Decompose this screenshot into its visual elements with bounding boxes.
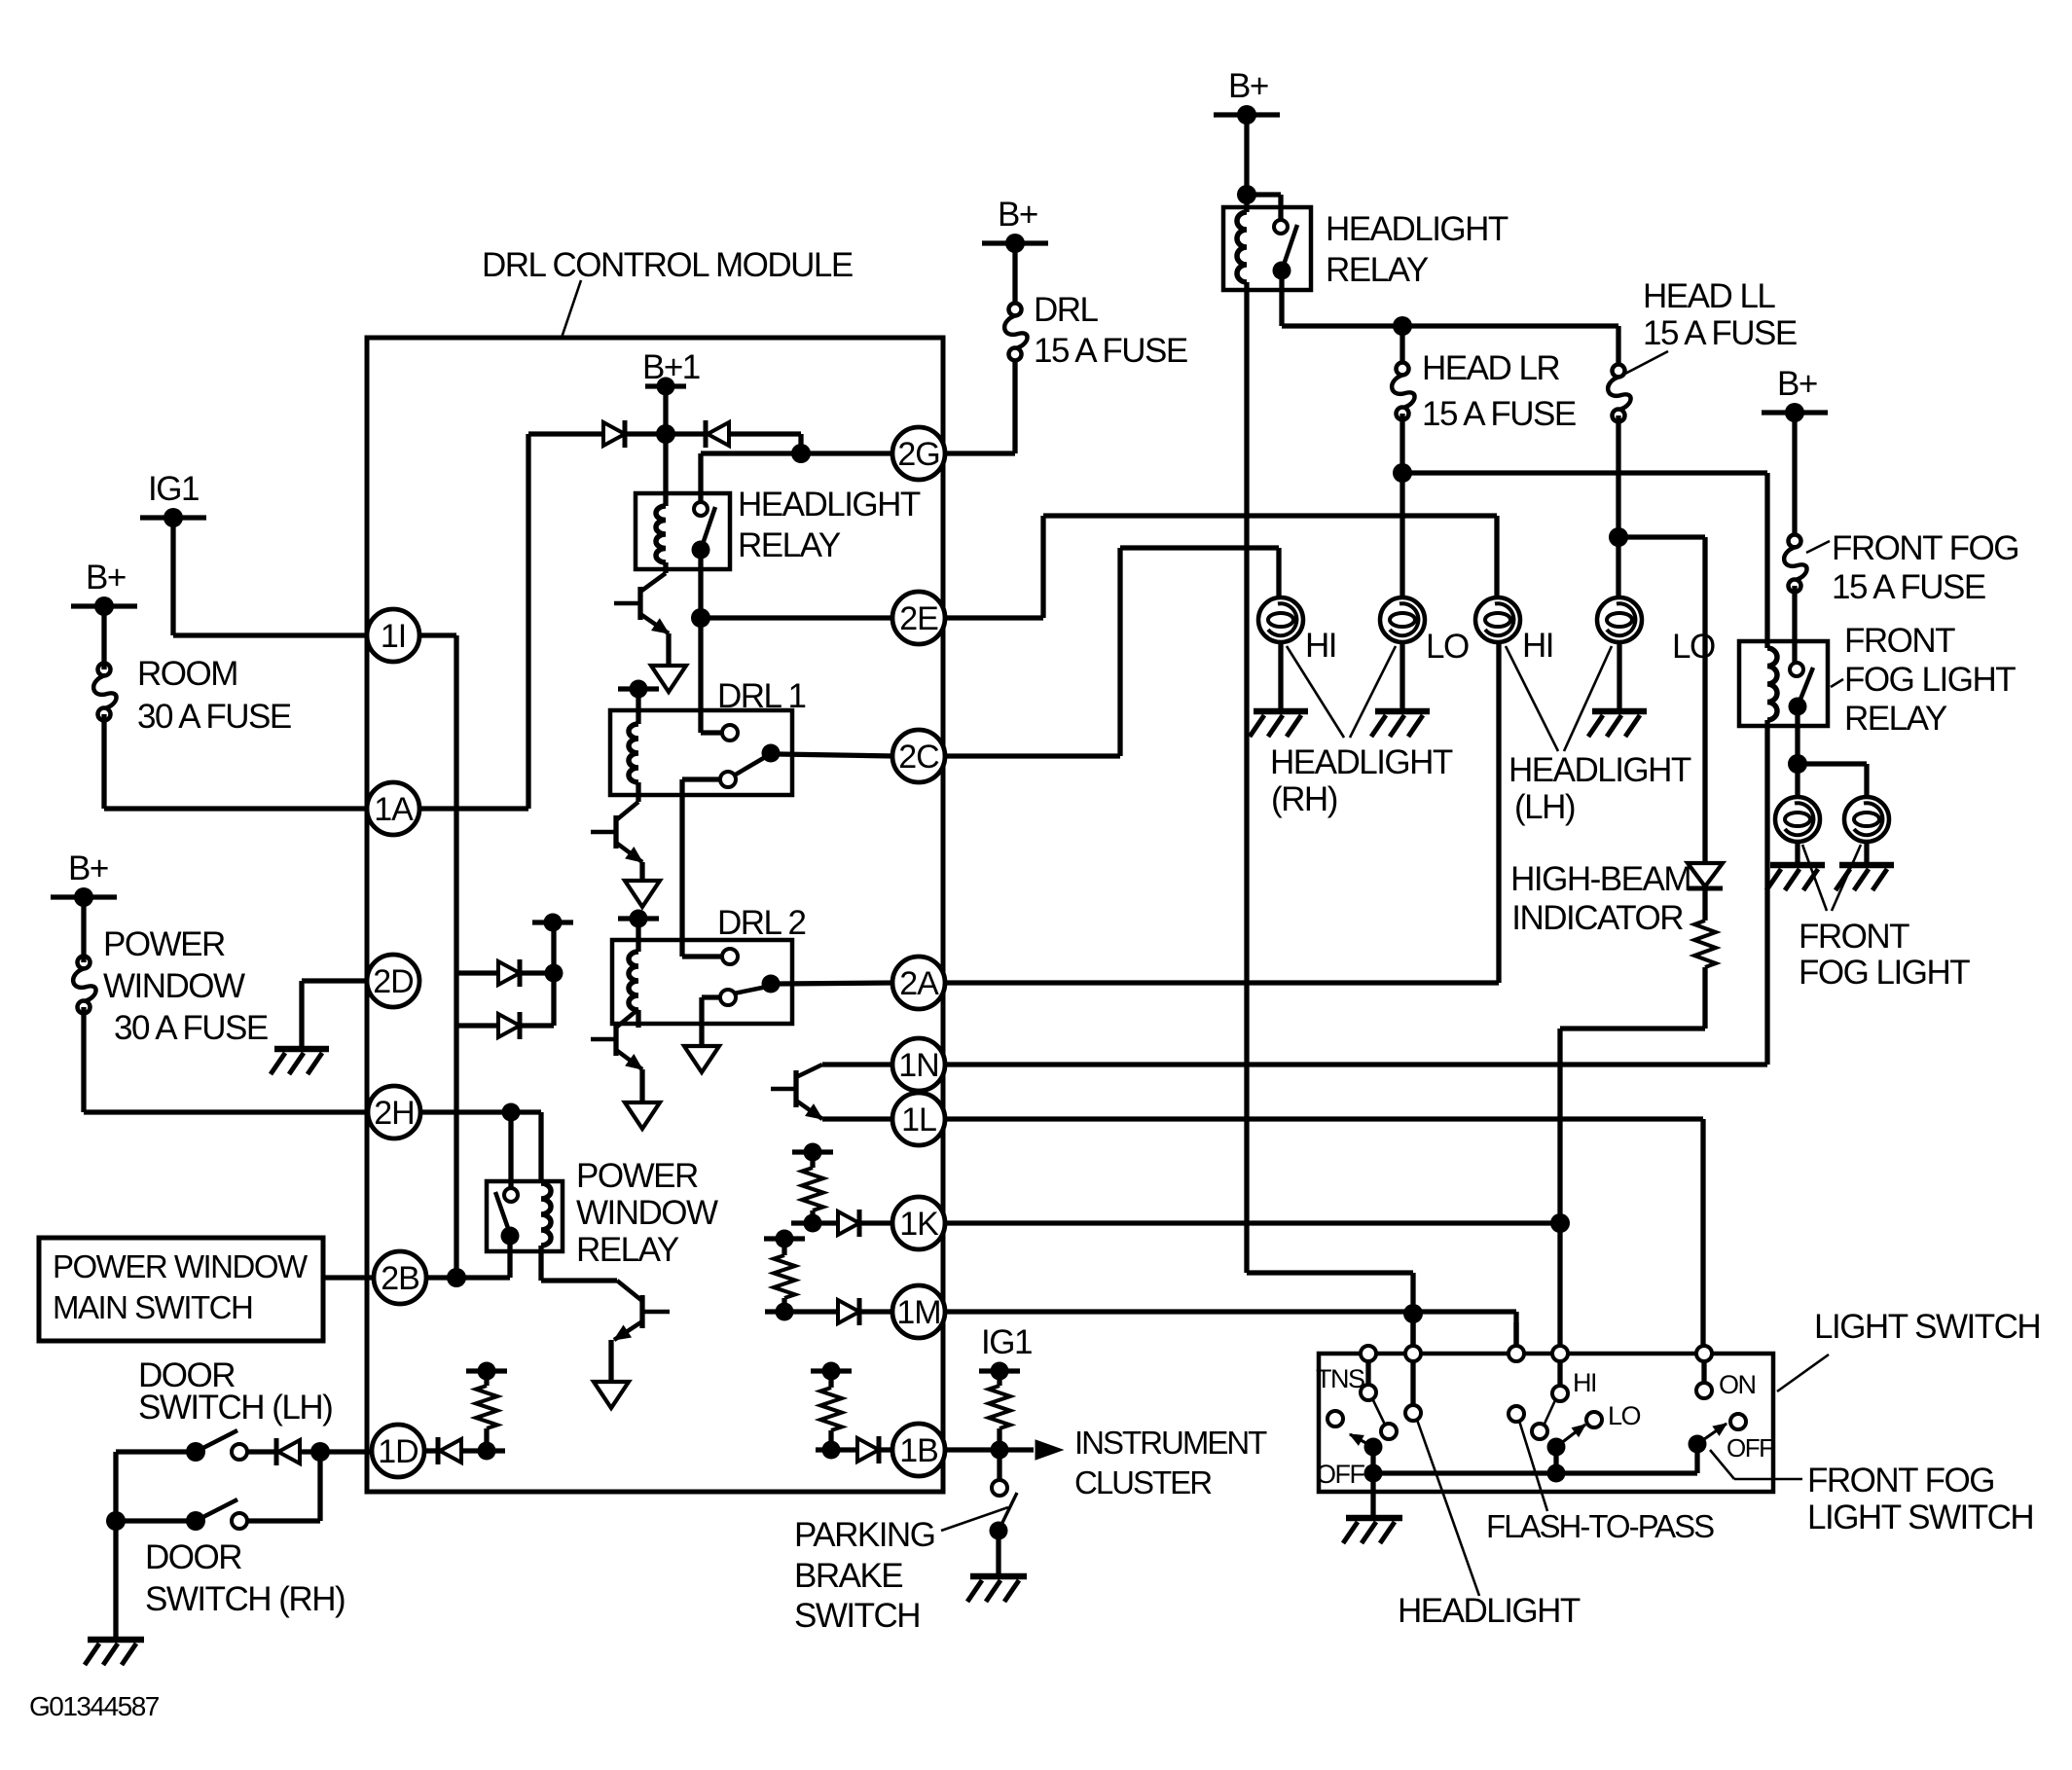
DRL control module box [367, 338, 943, 1492]
svg-text:LIGHT SWITCH: LIGHT SWITCH [1807, 1499, 2033, 1536]
headlight bulb HI (LH) [1475, 597, 1553, 665]
node 2E junction [691, 608, 710, 628]
resistor high-beam indicator [1694, 888, 1716, 1029]
pin 2A [892, 957, 945, 1009]
label HI (dimmer) [1573, 1368, 1596, 1397]
ground (LO LH) [1588, 711, 1647, 737]
wire LO RH feed [1400, 473, 1404, 597]
label DRL CONTROL MODULE [482, 246, 853, 338]
node B+1 diode junction [656, 424, 675, 444]
fuse POWER WINDOW 30 A [73, 897, 268, 1112]
figure number G01344587 [29, 1691, 160, 1721]
power window relay coil [541, 1183, 617, 1281]
wire 1A to diode column [420, 434, 528, 809]
arrow to instrument cluster [1036, 1440, 1063, 1460]
node 1D junction [478, 1442, 496, 1461]
wire HI link [1545, 1400, 1555, 1424]
wire 2C to HI(RH) bulb [944, 548, 1279, 756]
svg-text:HEADLIGHT: HEADLIGHT [1509, 751, 1691, 789]
power symbol IG1 (left) [140, 470, 206, 527]
svg-text:15 A FUSE: 15 A FUSE [1034, 332, 1187, 370]
power symbol B+ (headlight relay) [1214, 67, 1280, 125]
wire 2H internal [419, 1112, 541, 1183]
label DOOR SWITCH (LH) [138, 1356, 332, 1427]
svg-text:15 A FUSE: 15 A FUSE [1422, 395, 1576, 433]
label TNS [1316, 1364, 1364, 1393]
diode D4 (second row) [456, 1012, 554, 1039]
svg-text:HIGH-BEAM: HIGH-BEAM [1510, 860, 1690, 898]
headlight relay coil (top right) [1237, 195, 1247, 290]
label OFF (left) [1316, 1460, 1364, 1489]
relay DRL 2 label [717, 904, 805, 942]
diode D1 (1A to B+1) [528, 420, 666, 448]
DRL2 moving contact [734, 975, 781, 994]
svg-text:SWITCH (LH): SWITCH (LH) [138, 1389, 332, 1427]
diode door switch LH [247, 1438, 373, 1465]
wire 1L to ON terminal [944, 1119, 1703, 1346]
node fog bulbs junction [1788, 754, 1807, 774]
wire DRL2 to 2A [779, 983, 893, 984]
headlight bulb LO (LH) [1597, 597, 1715, 666]
pin 1K [892, 1197, 945, 1249]
svg-text:(LH): (LH) [1514, 788, 1575, 826]
light switch box [1319, 1354, 1773, 1492]
switch TNS contact [1361, 1361, 1376, 1400]
node HEAD LR fuse tap [1393, 316, 1412, 362]
wire main switch to pin 2B [323, 1275, 375, 1280]
wire Q3 emitter down [639, 1069, 644, 1102]
wire 2E internal [701, 615, 893, 620]
pin 2E [892, 592, 945, 644]
svg-text:HI: HI [1573, 1368, 1596, 1397]
wire to fog bulb 2 [1798, 764, 1867, 798]
node 2H junction [502, 1103, 521, 1122]
ground (parking brake) [967, 1576, 1027, 1602]
svg-text:RELAY: RELAY [576, 1231, 679, 1269]
label INSTRUMENT CLUSTER [1074, 1425, 1267, 1500]
headlight bulb LO (RH) [1380, 597, 1469, 666]
svg-text:1B: 1B [899, 1432, 938, 1469]
wire DRL2 lower contact to triangle [702, 997, 720, 1046]
pin 2G [892, 427, 945, 480]
svg-text:2C: 2C [898, 739, 939, 776]
svg-text:2A: 2A [899, 965, 939, 1002]
node door diode junction [310, 1442, 330, 1521]
switch ON contact [1696, 1361, 1712, 1398]
DRL1 moving contact [734, 744, 781, 777]
pin 1N [892, 1038, 945, 1091]
switch fog OFF contact [1730, 1414, 1746, 1429]
open triangle (Q3 emitter) [625, 1102, 660, 1129]
svg-text:LO: LO [1672, 628, 1715, 666]
headlight relay box (module) [636, 493, 730, 569]
wire to fog bulb 1 [1795, 764, 1799, 798]
leader FRONT FOG LIGHT SWITCH [1710, 1450, 1802, 1479]
svg-text:15 A FUSE: 15 A FUSE [1643, 314, 1797, 352]
wire relay coil control line [1247, 290, 1413, 1346]
power window relay box [487, 1181, 563, 1251]
wire HEAD LL fuse drop [1616, 326, 1620, 364]
svg-text:ROOM: ROOM [137, 655, 237, 693]
svg-text:OFF: OFF [1727, 1433, 1773, 1463]
wire 1N to fog relay coil [944, 726, 1767, 1065]
svg-text:B+1: B+1 [642, 348, 700, 386]
svg-text:1K: 1K [899, 1206, 939, 1243]
svg-text:FRONT FOG: FRONT FOG [1832, 529, 2018, 567]
node 1K junction on HI line [1550, 1213, 1570, 1233]
svg-text:INDICATOR: INDICATOR [1511, 899, 1683, 937]
wire relay to DRL1 contact [701, 618, 722, 733]
ground (fog bulb 2) [1836, 865, 1894, 890]
headlight relay contact (module) [692, 453, 716, 618]
wire dimmer pivot to bus [1547, 1447, 1566, 1483]
switch mid contact (dimmer) [1532, 1424, 1547, 1439]
wire HEAD LR to fog relay coil [1402, 473, 1767, 648]
label FRONT FOG LIGHT RELAY [1831, 622, 2016, 738]
svg-text:LO: LO [1608, 1401, 1641, 1430]
headlight relay contact (top right) [1247, 195, 1297, 326]
fuse HEAD LR 15 A [1392, 349, 1576, 433]
wire 1M external [944, 1304, 1516, 1346]
switch HEAD contact [1405, 1361, 1421, 1421]
svg-text:POWER: POWER [103, 925, 225, 963]
wire fog bulb 1 ground [1795, 842, 1799, 863]
ground (door switches) [85, 1640, 144, 1665]
label HIGH-BEAM INDICATOR [1510, 860, 1690, 937]
fuse DRL 15 A [1004, 251, 1187, 370]
diode D2 (2G to B+1) [666, 420, 811, 463]
pin 1A [367, 782, 419, 835]
svg-text:(RH): (RH) [1271, 780, 1337, 818]
switch LO contact [1586, 1412, 1602, 1427]
parking brake switch [990, 1450, 1018, 1540]
switch mid contact (left bank) [1381, 1424, 1397, 1439]
open triangle (Q4 emitter) [594, 1382, 629, 1408]
front fog relay contact [1789, 663, 1814, 764]
DRL2 upper contact [722, 949, 738, 964]
svg-text:B+: B+ [86, 559, 126, 596]
DRL1 box [610, 710, 792, 795]
pin 2B [374, 1251, 426, 1304]
svg-text:IG1: IG1 [148, 470, 199, 508]
wire indicator to HI terminal [1560, 1029, 1705, 1354]
svg-text:OFF: OFF [1316, 1460, 1364, 1489]
open triangle (Q2 emitter) [625, 881, 660, 907]
svg-text:1L: 1L [901, 1102, 936, 1138]
diode D6 (1K) [791, 1210, 893, 1237]
label LO (dimmer) [1608, 1401, 1641, 1430]
label PARKING BRAKE SWITCH [794, 1516, 934, 1635]
label POWER WINDOW RELAY [576, 1157, 718, 1269]
svg-text:INSTRUMENT: INSTRUMENT [1074, 1425, 1267, 1461]
svg-text:FRONT: FRONT [1799, 918, 1909, 956]
relay DRL 1 label [717, 677, 805, 715]
pin 1D [372, 1425, 424, 1477]
power symbol B+ (room fuse) [71, 559, 137, 616]
label DOOR SWITCH (RH) [145, 1538, 345, 1618]
svg-text:B+: B+ [68, 849, 108, 887]
wire HI RH to ground [1278, 642, 1283, 709]
ground (HI RH) [1250, 711, 1308, 737]
power symbol B+ (front fog) [1762, 365, 1828, 422]
terminal flash-to-pass [1509, 1322, 1524, 1361]
box POWER WINDOW MAIN SWITCH [39, 1238, 323, 1341]
power window relay contact [495, 1112, 520, 1278]
svg-text:1N: 1N [898, 1047, 938, 1084]
wire 2B internal [425, 1268, 510, 1287]
svg-text:HI: HI [1522, 627, 1553, 665]
diode high-beam indicator [1688, 863, 1723, 888]
svg-text:HI: HI [1305, 627, 1336, 665]
svg-text:30 A FUSE: 30 A FUSE [114, 1009, 268, 1047]
power symbol B+ (DRL fuse) [982, 196, 1048, 253]
wire IG1 to pin 1I [173, 518, 369, 635]
label HEADLIGHT (LH) [1506, 646, 1691, 826]
svg-text:2E: 2E [899, 600, 938, 637]
pin 1L [892, 1093, 945, 1145]
door switch LH [116, 1430, 247, 1462]
pin 1M [892, 1285, 945, 1338]
svg-text:TNS: TNS [1316, 1364, 1364, 1393]
wire LO LH to ground [1617, 642, 1621, 709]
wire parking brake to ground [996, 1531, 1000, 1574]
diode D7 (1M) [765, 1298, 893, 1325]
diode D5 (1D) [423, 1437, 505, 1464]
transistor Q3 (DRL2 driver) [591, 1009, 642, 1069]
DRL2 lower contact [720, 990, 736, 1005]
label FRONT FOG LIGHT SWITCH [1807, 1462, 2033, 1536]
front fog relay coil [1767, 648, 1777, 726]
svg-text:2H: 2H [374, 1095, 414, 1132]
switch FTP contact [1509, 1406, 1524, 1422]
resistor R3 with stub (1B) [811, 1362, 852, 1451]
wire Q5 collector to 1N [822, 1062, 893, 1066]
svg-text:BRAKE: BRAKE [794, 1557, 902, 1595]
svg-text:RELAY: RELAY [1844, 700, 1947, 738]
svg-text:15 A FUSE: 15 A FUSE [1832, 568, 1985, 606]
fuse ROOM 30 A [93, 606, 291, 809]
resistor R1 with stub (1K) [792, 1143, 833, 1224]
front fog bulb 2 [1844, 797, 1889, 842]
pin 2H [368, 1086, 420, 1138]
svg-text:2G: 2G [897, 436, 939, 473]
headlight bulb HI (RH) [1258, 597, 1336, 665]
ground (LO RH) [1371, 711, 1430, 737]
svg-text:FOG LIGHT: FOG LIGHT [1844, 661, 2016, 699]
wire 2D to ground [302, 981, 369, 1049]
dimmer blade [1547, 1425, 1586, 1457]
wire HEAD LR fuse to junction [1393, 414, 1412, 483]
wire 2G to DRL fuse [944, 362, 1015, 453]
label LIGHT SWITCH [1777, 1308, 2040, 1391]
wire B+1 down [663, 386, 668, 434]
ground (light switch) [1343, 1518, 1402, 1543]
svg-text:PARKING: PARKING [794, 1516, 934, 1554]
wire Q4 emitter down [608, 1340, 613, 1382]
resistor (parking brake pull-up) [989, 1371, 1010, 1450]
wire door switches left drop [113, 1452, 118, 1637]
wire 2G internal [701, 451, 893, 455]
power stub above DRL1 [618, 680, 659, 699]
label HEADLIGHT (switch) [1398, 1592, 1581, 1630]
wire 1I branch vertical [418, 635, 456, 1278]
label OFF (fog) [1727, 1433, 1773, 1463]
front fog light relay box [1739, 641, 1828, 726]
headlight switch blade [1350, 1434, 1383, 1457]
svg-text:B+: B+ [998, 196, 1037, 234]
label FRONT FOG LIGHT [1799, 845, 1970, 992]
power stub above DRL2 [618, 910, 659, 928]
leader to FLASH-TO-PASS [1519, 1421, 1547, 1511]
svg-text:HEADLIGHT: HEADLIGHT [1270, 743, 1453, 781]
bus OFF line [1373, 1470, 1697, 1475]
ground (fog bulb 1) [1766, 865, 1825, 890]
wire 2E to HI(LH) bulb [944, 516, 1497, 618]
svg-text:2B: 2B [381, 1260, 419, 1297]
terminal HI [1552, 1346, 1568, 1361]
diode D3 (row near 2D) [456, 959, 554, 987]
label HEADLIGHT (RH) [1270, 646, 1453, 818]
svg-text:1I: 1I [381, 618, 406, 655]
transistor Q2 (DRL1 driver) [591, 802, 642, 862]
label HEADLIGHT RELAY (top right) [1326, 210, 1509, 289]
svg-text:HEADLIGHT: HEADLIGHT [1398, 1592, 1581, 1630]
label ON (fog) [1719, 1370, 1756, 1399]
power symbol B+1 [642, 348, 700, 396]
pin 2D [367, 955, 419, 1007]
wire DRL1 lower to DRL2 upper [682, 779, 722, 957]
svg-text:LO: LO [1426, 628, 1469, 666]
svg-text:FLASH-TO-PASS: FLASH-TO-PASS [1486, 1508, 1714, 1544]
pin 2C [892, 730, 945, 782]
svg-text:2D: 2D [373, 963, 413, 1000]
svg-text:POWER: POWER [576, 1157, 698, 1195]
svg-text:HEAD LR: HEAD LR [1422, 349, 1559, 387]
transistor Q1 (headlight relay driver) [614, 573, 669, 633]
DRL2 box [612, 940, 792, 1024]
svg-text:B+: B+ [1228, 67, 1268, 105]
terminal ON [1696, 1346, 1712, 1361]
svg-text:DOOR: DOOR [145, 1538, 241, 1576]
power symbol IG1 (parking brake) [979, 1323, 1032, 1381]
svg-text:RELAY: RELAY [1326, 251, 1429, 289]
terminal headlight common [1405, 1322, 1421, 1361]
svg-text:HEAD LL: HEAD LL [1643, 277, 1775, 315]
svg-text:MAIN SWITCH: MAIN SWITCH [53, 1289, 252, 1325]
svg-text:DRL CONTROL MODULE: DRL CONTROL MODULE [482, 246, 853, 284]
switch left contact (left bank) [1327, 1411, 1343, 1427]
fuse FRONT FOG 15 A [1784, 413, 2018, 606]
svg-text:30 A FUSE: 30 A FUSE [137, 698, 291, 736]
svg-text:ON: ON [1719, 1370, 1756, 1399]
svg-text:HEADLIGHT: HEADLIGHT [738, 486, 921, 524]
wire Q2 emitter down [639, 862, 644, 881]
wire TNS link [1372, 1398, 1385, 1425]
resistor R2 with stub (1M) [764, 1230, 805, 1313]
wire high-beam indicator tap [1618, 537, 1705, 863]
DRL1 lower contact [720, 772, 736, 787]
wire relay output bus [1282, 323, 1618, 328]
wire OFF to ground [1370, 1473, 1375, 1516]
wire fog fuse to relay [1792, 586, 1797, 663]
svg-text:POWER WINDOW: POWER WINDOW [53, 1248, 309, 1284]
svg-text:WINDOW: WINDOW [103, 967, 245, 1005]
wire Q5 emitter to 1L [822, 1116, 893, 1121]
label FLASH-TO-PASS [1486, 1508, 1714, 1544]
wire 1K external [944, 1220, 1560, 1225]
fuse HEAD LL 15 A [1608, 277, 1797, 422]
svg-text:WINDOW: WINDOW [576, 1194, 718, 1232]
wire room fuse to pin 1A [104, 806, 370, 811]
open triangle (Q1 emitter) [651, 666, 686, 692]
fog switch blade [1689, 1424, 1727, 1454]
wire HEAD LL fuse to LO LH [1609, 415, 1628, 596]
switch HI contact [1552, 1361, 1568, 1401]
leader to HEADLIGHT label [1417, 1420, 1479, 1596]
power symbol B+ (power window fuse) [51, 849, 117, 907]
svg-text:SWITCH: SWITCH [794, 1597, 920, 1635]
svg-text:DRL 2: DRL 2 [717, 904, 805, 942]
wire 2A to HI(LH) bulb bottom [944, 642, 1499, 983]
terminal TNS [1361, 1346, 1376, 1361]
leader PARKING BRAKE SWITCH [941, 1507, 1008, 1531]
svg-text:FRONT FOG: FRONT FOG [1807, 1462, 1994, 1499]
svg-text:RELAY: RELAY [738, 526, 841, 564]
DRL1 upper contact [722, 725, 738, 741]
front fog bulb 1 [1775, 797, 1820, 842]
svg-text:B+: B+ [1777, 365, 1817, 403]
svg-text:LIGHT SWITCH: LIGHT SWITCH [1814, 1308, 2040, 1346]
svg-text:1D: 1D [378, 1433, 418, 1470]
ground (2D) [271, 1049, 329, 1074]
headlight relay box (top right) [1223, 207, 1311, 290]
transistor Q4 (pw relay driver) [614, 1281, 670, 1340]
svg-text:SWITCH (RH): SWITCH (RH) [145, 1580, 345, 1618]
svg-text:IG1: IG1 [981, 1323, 1032, 1361]
svg-text:FOG LIGHT: FOG LIGHT [1799, 954, 1970, 992]
svg-text:HEADLIGHT: HEADLIGHT [1326, 210, 1509, 248]
svg-text:DRL: DRL [1034, 291, 1099, 329]
wire B+ down to relay [1237, 115, 1256, 204]
diode D8 (1B) [816, 1436, 893, 1463]
wire DRL1 to 2C [779, 754, 893, 756]
wire pw fuse to pin 2H [84, 1109, 371, 1114]
DRL1 coil [629, 689, 638, 802]
pin 1B [892, 1424, 945, 1476]
wire fog bulb 2 ground [1864, 842, 1869, 863]
wire pivot to OFF [1364, 1447, 1383, 1483]
door switch RH [106, 1499, 320, 1531]
label HEADLIGHT RELAY (module) [738, 486, 921, 564]
svg-text:CLUSTER: CLUSTER [1074, 1464, 1212, 1500]
open triangle (DRL2 contact) [684, 1046, 719, 1072]
transistor Q5 (1N/1L) [771, 1065, 822, 1119]
wire fog pivot to bus [1694, 1444, 1699, 1473]
svg-text:FRONT: FRONT [1844, 622, 1955, 660]
pin 1I [367, 609, 419, 662]
wire LO RH to ground [1400, 642, 1404, 709]
headlight relay coil (module) [656, 434, 666, 573]
svg-text:1M: 1M [896, 1294, 940, 1331]
node internal rail top [532, 914, 573, 1027]
DRL2 coil [629, 919, 638, 1028]
svg-text:G01344587: G01344587 [29, 1691, 160, 1721]
svg-text:1A: 1A [374, 791, 414, 828]
wire Q1 emitter to arrow [666, 633, 671, 666]
wire 1B external [944, 1441, 1034, 1460]
resistor R4 with stub (1D) [466, 1362, 507, 1452]
